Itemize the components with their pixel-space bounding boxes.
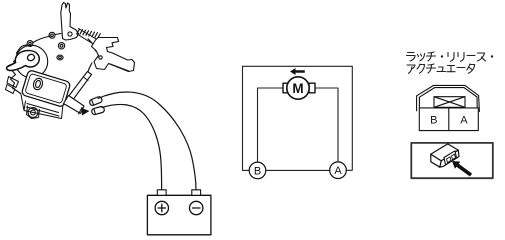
connector lock tab box with X <box>434 97 465 108</box>
terminal A circle <box>330 162 347 179</box>
ッ <box>418 54 425 61</box>
battery body <box>147 195 211 235</box>
grommet screw top-left <box>27 41 33 47</box>
grommet screw upper <box>49 32 55 38</box>
base plate big boss circle <box>15 45 47 77</box>
connector stub cap <box>79 108 83 115</box>
motor brush left <box>283 83 289 93</box>
ー <box>467 55 475 57</box>
spring coil loops <box>77 29 100 38</box>
fork arm upper bracket <box>61 3 79 41</box>
connector black wedge <box>82 108 90 116</box>
connector terminal cells <box>419 108 478 131</box>
housing face oval <box>32 77 44 91</box>
connector pinout outer housing <box>417 85 480 111</box>
motor M circle <box>287 77 309 99</box>
bolt lower-left <box>28 108 38 118</box>
リ <box>448 53 454 62</box>
terminal B circle <box>249 162 266 179</box>
pointing arrow <box>452 161 472 177</box>
connector pinout inner line <box>419 88 477 108</box>
socket pin detail <box>444 151 457 165</box>
inspection icon box <box>411 143 493 178</box>
wire from plus terminal (inner) <box>102 104 162 189</box>
ュ <box>437 67 446 72</box>
ラ <box>407 53 416 62</box>
rotation direction arrow <box>290 68 305 75</box>
svg-text:B: B <box>430 115 437 127</box>
ア <box>407 65 415 73</box>
bullet terminal upper <box>89 96 103 106</box>
3d connector right face with socket <box>440 150 459 167</box>
base plate left jagged edge <box>11 48 21 94</box>
svg-text:M: M <box>292 81 303 96</box>
battery terminal left <box>157 190 166 196</box>
motor housing (rounded box) <box>21 70 71 108</box>
リ <box>458 53 464 62</box>
3d connector front face <box>431 154 442 167</box>
housing bottom 3d face <box>21 94 63 119</box>
チ <box>427 52 436 61</box>
crank lever hub hole <box>27 53 36 61</box>
circuit inner loop right <box>313 88 338 162</box>
grommet oval lower <box>57 55 63 60</box>
grommet screw mid <box>58 43 64 49</box>
ー <box>457 67 465 69</box>
battery minus symbol <box>190 201 203 214</box>
spring coil body <box>77 29 100 47</box>
svg-text:A: A <box>460 115 468 127</box>
wire from minus terminal (outer) <box>98 92 196 190</box>
タ <box>467 64 475 73</box>
circuit inner loop left <box>258 88 284 162</box>
label: latch release actuator (Japanese, drawn strokes) <box>407 52 494 73</box>
base plate right edge under bracket <box>88 39 96 72</box>
・ <box>441 55 443 57</box>
motor brush right <box>309 83 315 93</box>
hook bracket hole <box>99 56 102 59</box>
link strip to bracket <box>69 72 92 100</box>
latch release actuator assembly: base plate top edge <box>20 34 61 49</box>
・ <box>491 55 493 57</box>
ク <box>417 64 425 73</box>
bullet terminal lower <box>91 106 105 115</box>
crank lever (keyhole shape) <box>7 51 40 71</box>
circuit outer loop <box>243 66 353 170</box>
svg-text:A: A <box>334 165 342 177</box>
battery plus symbol <box>155 201 168 214</box>
ス <box>478 53 486 61</box>
エ <box>447 66 455 72</box>
latch hook bracket right <box>92 38 135 72</box>
hook bracket inner line <box>110 64 129 71</box>
fork arm foot hole <box>68 32 72 36</box>
battery terminal right <box>192 190 201 196</box>
bolt tab lower-left <box>27 106 40 119</box>
3d connector top face <box>431 144 459 161</box>
left slide rail tab <box>6 77 19 94</box>
link strip step <box>84 78 88 81</box>
チ <box>427 64 436 73</box>
crank lever nose inner line <box>8 63 16 67</box>
connector stub on housing <box>64 96 85 114</box>
svg-text:B: B <box>254 165 261 177</box>
